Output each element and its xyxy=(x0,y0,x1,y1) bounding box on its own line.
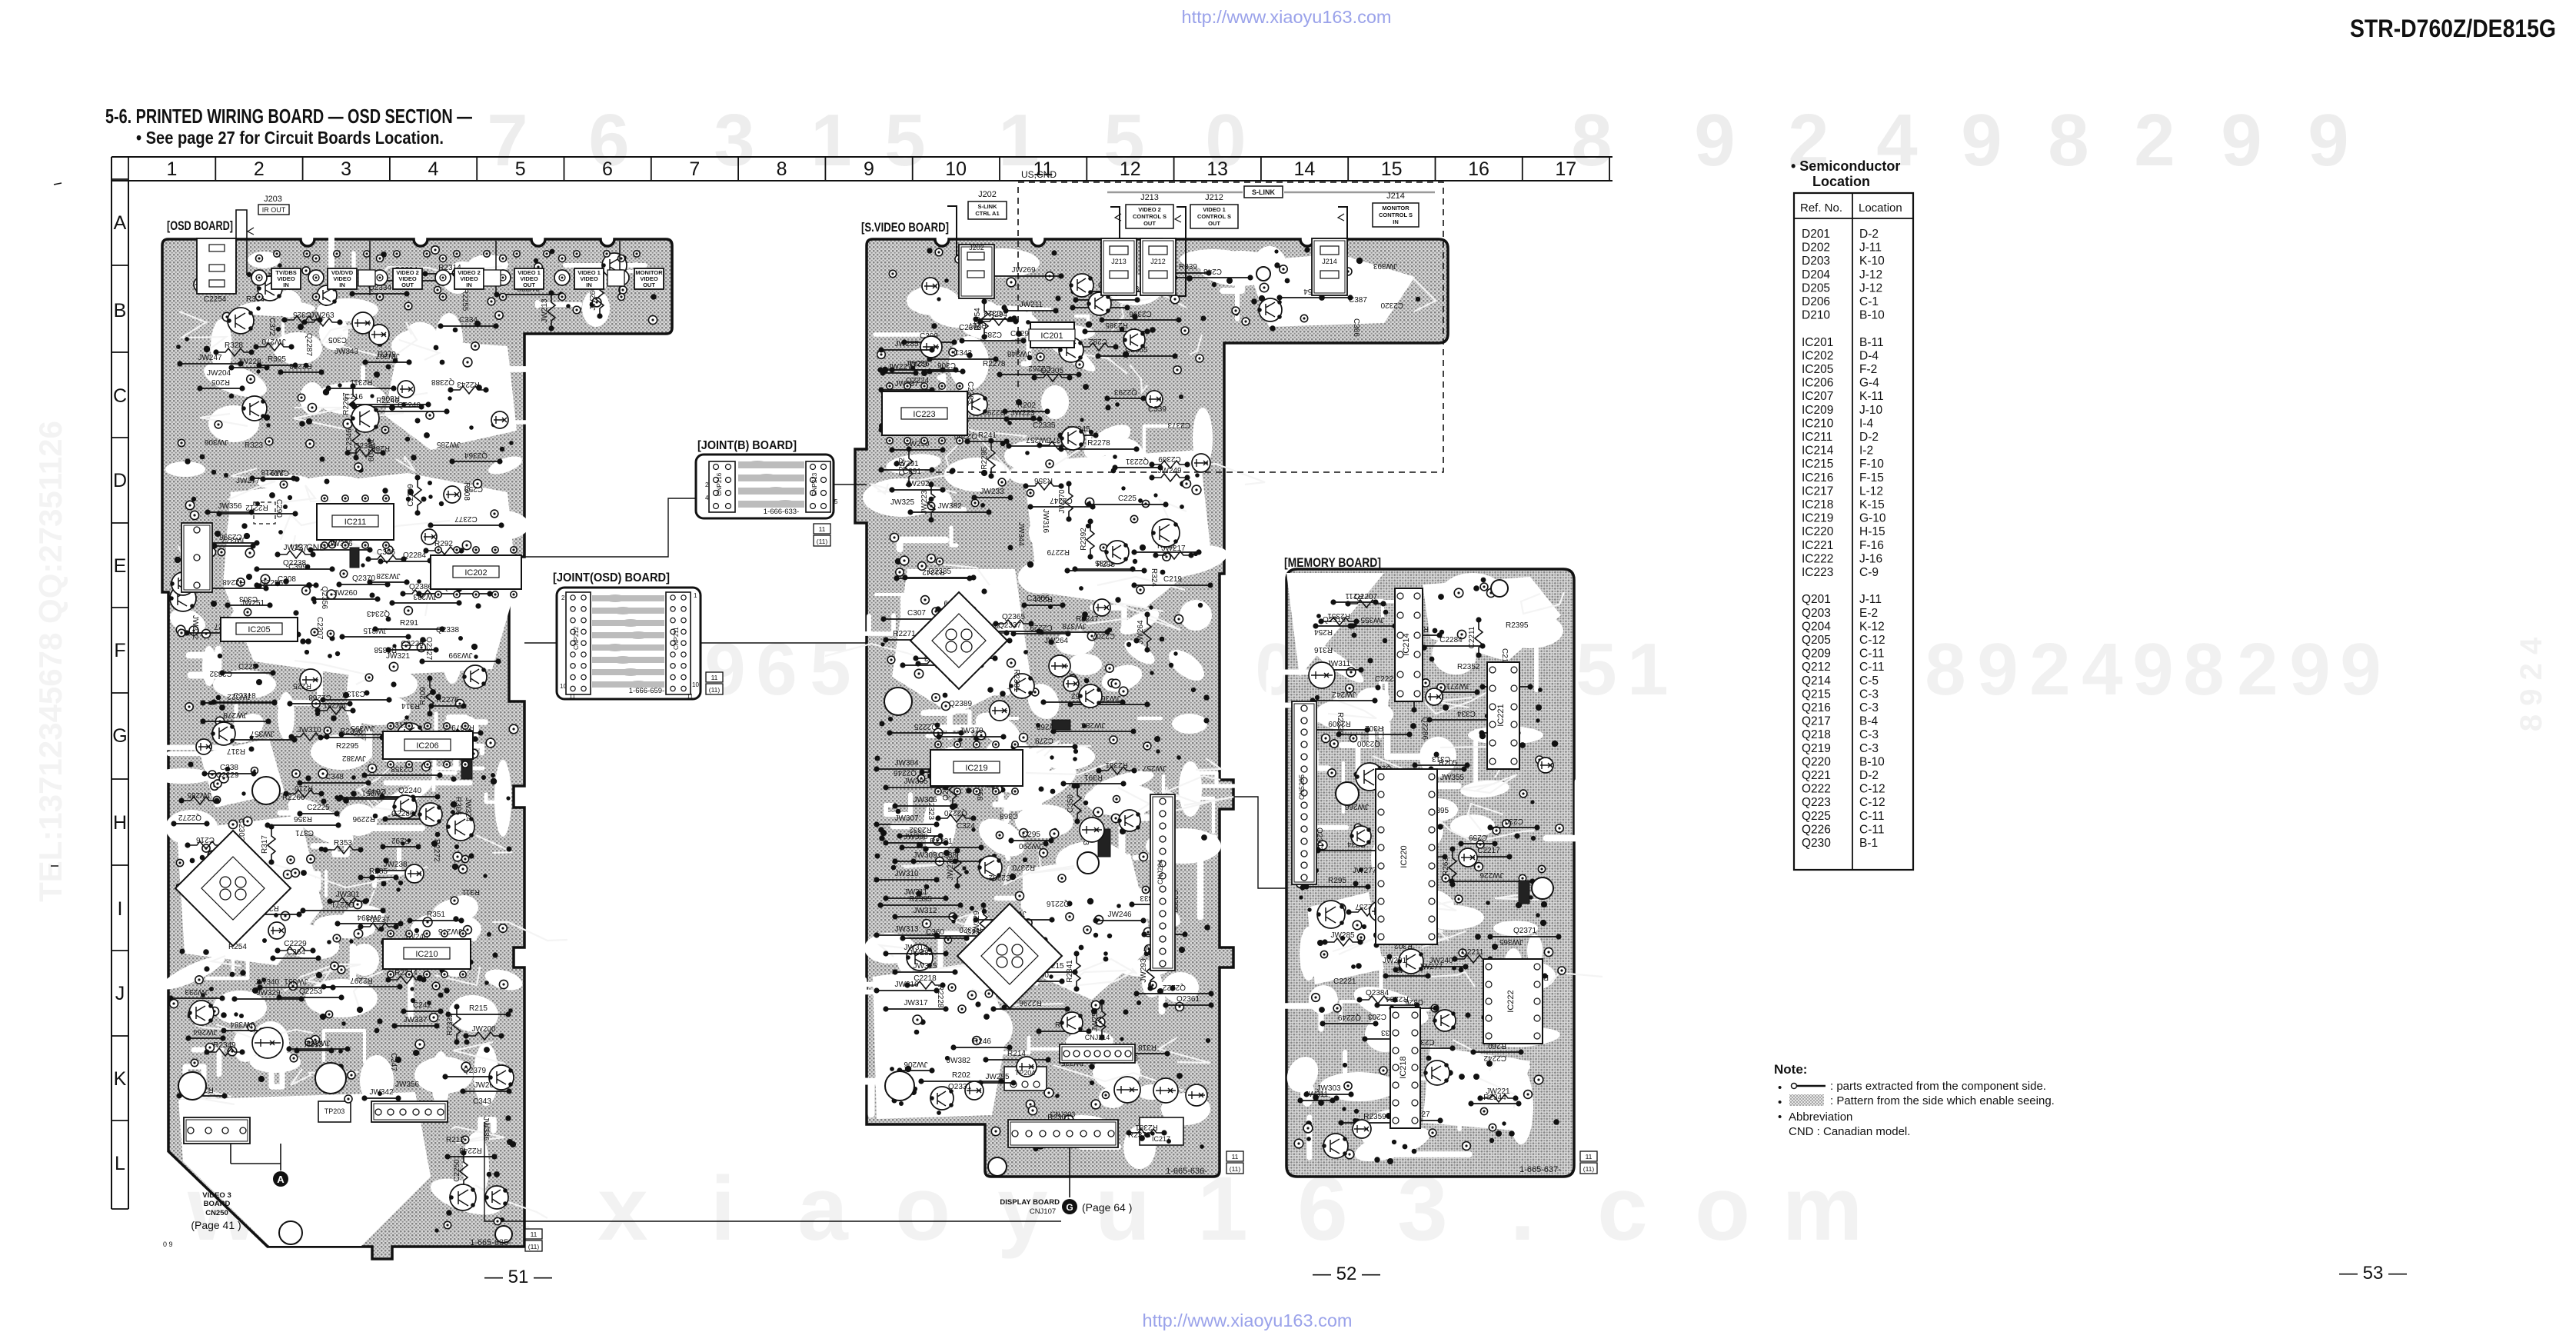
svg-text:R2342: R2342 xyxy=(922,568,945,576)
svg-text:I-4: I-4 xyxy=(1859,417,1873,430)
svg-text:JW311: JW311 xyxy=(1305,1091,1329,1099)
svg-text:8 9 2 4: 8 9 2 4 xyxy=(2514,637,2548,731)
svg-text:DISPLAY BOARD: DISPLAY BOARD xyxy=(1000,1198,1060,1207)
svg-text:C343: C343 xyxy=(954,349,972,358)
svg-text:IC220: IC220 xyxy=(1399,845,1409,867)
svg-text:JW355: JW355 xyxy=(1360,615,1385,624)
svg-text:9: 9 xyxy=(2221,99,2261,181)
svg-text:C2254: C2254 xyxy=(204,295,227,304)
svg-text:R2328: R2328 xyxy=(1336,712,1344,735)
svg-text:IC217: IC217 xyxy=(1802,485,1833,498)
svg-text:C-12: C-12 xyxy=(1859,796,1885,809)
svg-text:9: 9 xyxy=(1961,99,2002,181)
svg-text:Note:: Note: xyxy=(1774,1062,1807,1077)
svg-text:OUT: OUT xyxy=(1208,220,1220,227)
svg-text:JW356: JW356 xyxy=(395,1081,420,1089)
svg-text:J-12: J-12 xyxy=(1859,268,1882,281)
svg-text:1: 1 xyxy=(810,99,851,181)
svg-text:R356: R356 xyxy=(1034,476,1053,485)
svg-text:Q2272: Q2272 xyxy=(178,813,201,821)
svg-text:F-2: F-2 xyxy=(1859,363,1877,376)
svg-text:C-11: C-11 xyxy=(1859,810,1884,823)
svg-text:Q216: Q216 xyxy=(1802,701,1831,714)
svg-text:Q2249: Q2249 xyxy=(1338,1013,1361,1021)
svg-text:Q209: Q209 xyxy=(1802,648,1831,661)
svg-text:G: G xyxy=(1066,1202,1073,1213)
svg-text:IC211: IC211 xyxy=(1802,431,1832,444)
svg-text:C279: C279 xyxy=(1035,736,1053,744)
svg-text:J213: J213 xyxy=(1140,193,1159,202)
svg-text:IC223: IC223 xyxy=(1802,566,1833,579)
svg-text:Q2300: Q2300 xyxy=(1357,739,1380,748)
svg-text:JW226: JW226 xyxy=(1479,871,1504,879)
svg-text:R395: R395 xyxy=(268,355,286,364)
svg-text:MONITOR: MONITOR xyxy=(1382,205,1409,211)
svg-text:JW306: JW306 xyxy=(306,1038,331,1047)
svg-text:I-2: I-2 xyxy=(1859,445,1873,458)
svg-text:R2395: R2395 xyxy=(1506,621,1529,630)
svg-text:IC214: IC214 xyxy=(1802,445,1834,458)
svg-text:JW209: JW209 xyxy=(366,438,374,462)
svg-text:— 52 —: — 52 — xyxy=(1313,1264,1380,1284)
svg-text:R339: R339 xyxy=(1179,263,1197,271)
svg-text:C2346: C2346 xyxy=(345,428,354,451)
svg-text:R353: R353 xyxy=(334,839,352,847)
svg-text:C216: C216 xyxy=(196,835,215,844)
svg-text:2: 2 xyxy=(2029,628,2070,711)
svg-text:R2295: R2295 xyxy=(980,447,989,470)
svg-text:C2306: C2306 xyxy=(1027,594,1050,603)
svg-text:R311: R311 xyxy=(461,887,480,896)
svg-text:Q2388: Q2388 xyxy=(431,378,454,386)
svg-text:C225: C225 xyxy=(1118,495,1137,503)
svg-text:R324: R324 xyxy=(1150,568,1158,587)
svg-text:IC221: IC221 xyxy=(1802,539,1833,552)
svg-text:C372: C372 xyxy=(268,318,276,336)
svg-text:JW257: JW257 xyxy=(1142,764,1167,772)
svg-text:Q2343: Q2343 xyxy=(367,609,390,618)
svg-text:JW301: JW301 xyxy=(335,891,360,899)
svg-text:JW285: JW285 xyxy=(436,440,461,448)
svg-text:JW305: JW305 xyxy=(904,778,928,786)
svg-text:[JOINT(OSD) BOARD]: [JOINT(OSD) BOARD] xyxy=(553,571,670,584)
svg-text:JW304: JW304 xyxy=(894,759,919,768)
svg-text:11: 11 xyxy=(531,1230,537,1238)
svg-text:JW281: JW281 xyxy=(323,701,348,709)
svg-text:9: 9 xyxy=(1977,628,2018,711)
svg-text:R205: R205 xyxy=(1439,759,1457,768)
svg-text:16: 16 xyxy=(1468,158,1489,180)
svg-text:JW270: JW270 xyxy=(261,337,286,345)
svg-text:JW311: JW311 xyxy=(904,888,928,897)
svg-text:R308: R308 xyxy=(462,482,471,501)
svg-text:CONTROL S: CONTROL S xyxy=(1197,213,1231,220)
svg-text:C259: C259 xyxy=(1469,833,1487,841)
svg-text:JW306: JW306 xyxy=(913,796,937,804)
svg-text:JW285: JW285 xyxy=(187,791,211,799)
svg-text:B: B xyxy=(114,300,127,321)
svg-text:J214: J214 xyxy=(1322,258,1337,265)
svg-text:C399: C399 xyxy=(288,563,307,571)
svg-text:R2396: R2396 xyxy=(340,728,363,736)
svg-text:R318: R318 xyxy=(1138,1043,1157,1051)
svg-text:JW206: JW206 xyxy=(904,1060,928,1068)
svg-text:K-15: K-15 xyxy=(1859,498,1885,511)
svg-text:J213: J213 xyxy=(1111,258,1127,265)
svg-text:9: 9 xyxy=(704,628,745,711)
svg-text:CN5205: CN5205 xyxy=(1298,774,1306,800)
svg-text:Q2305: Q2305 xyxy=(1040,367,1063,375)
svg-text:R241: R241 xyxy=(978,431,997,440)
svg-text:Q2216: Q2216 xyxy=(1047,899,1070,907)
svg-text:C248: C248 xyxy=(1203,267,1222,275)
svg-text:R317: R317 xyxy=(227,747,245,755)
svg-text:• See page 27 for Circuit Boar: • See page 27 for Circuit Boards Locatio… xyxy=(136,128,444,148)
svg-text:(Page 41 ): (Page 41 ) xyxy=(191,1219,241,1231)
svg-text:IC201: IC201 xyxy=(1040,331,1063,341)
svg-text:IC211: IC211 xyxy=(344,518,367,527)
svg-text:Q2220: Q2220 xyxy=(944,808,967,817)
svg-text:i: i xyxy=(711,1158,736,1260)
svg-text:R2266: R2266 xyxy=(282,794,305,802)
svg-text:JW233: JW233 xyxy=(185,987,209,996)
svg-text:JW312: JW312 xyxy=(913,907,937,915)
svg-text:Q205: Q205 xyxy=(1802,634,1831,647)
svg-text:C2284: C2284 xyxy=(1439,636,1463,644)
svg-text:TP203: TP203 xyxy=(324,1107,345,1115)
svg-text:Q2225: Q2225 xyxy=(914,722,937,731)
svg-text:JW200: JW200 xyxy=(471,1025,496,1034)
svg-text:Q2364: Q2364 xyxy=(464,451,488,459)
svg-text:(11): (11) xyxy=(709,686,721,694)
svg-text:4: 4 xyxy=(705,495,709,501)
svg-text:Q2284: Q2284 xyxy=(403,551,426,560)
svg-text:F-16: F-16 xyxy=(1859,539,1884,552)
svg-text:C387: C387 xyxy=(1349,296,1367,305)
svg-text:C279: C279 xyxy=(271,468,289,477)
svg-text:R2276: R2276 xyxy=(436,696,459,704)
svg-text:JW277: JW277 xyxy=(1419,963,1443,971)
svg-text:— 53 —: — 53 — xyxy=(2339,1263,2407,1284)
svg-text:C290: C290 xyxy=(275,499,283,518)
svg-text:C307: C307 xyxy=(907,609,926,618)
svg-text:13: 13 xyxy=(1206,158,1228,180)
svg-text:D201: D201 xyxy=(1802,228,1830,241)
svg-text:R2278: R2278 xyxy=(1087,439,1110,448)
svg-text:C-3: C-3 xyxy=(1859,728,1879,741)
svg-text:CN250: CN250 xyxy=(205,1209,228,1217)
svg-text:JW264: JW264 xyxy=(193,1027,218,1036)
svg-text:J202: J202 xyxy=(978,190,997,199)
svg-text:G-10: G-10 xyxy=(1859,512,1886,525)
svg-text:JW242: JW242 xyxy=(1332,690,1356,698)
svg-text:C2396: C2396 xyxy=(1129,309,1152,318)
svg-text:•: • xyxy=(1778,1111,1782,1124)
svg-text:4: 4 xyxy=(428,158,438,180)
svg-text:IC202: IC202 xyxy=(464,568,487,578)
svg-text:C349: C349 xyxy=(368,787,386,795)
svg-text:A: A xyxy=(114,212,127,234)
svg-text:IC202: IC202 xyxy=(1802,349,1833,362)
svg-text:8: 8 xyxy=(777,158,787,180)
svg-text:: Pattern from the side which: : Pattern from the side which enable see… xyxy=(1830,1094,2055,1107)
svg-text:JW386: JW386 xyxy=(481,1117,490,1141)
svg-text:Q203: Q203 xyxy=(1802,607,1831,620)
svg-text:J212: J212 xyxy=(1150,258,1166,265)
svg-text:8: 8 xyxy=(1571,99,1612,181)
svg-text:IC205: IC205 xyxy=(248,625,270,634)
svg-text:2: 2 xyxy=(2134,99,2175,181)
svg-text:K-12: K-12 xyxy=(1859,620,1885,633)
svg-text:JW382: JW382 xyxy=(947,1057,971,1065)
svg-text:R2373: R2373 xyxy=(1128,1131,1151,1140)
svg-text:Location: Location xyxy=(1859,201,1902,215)
svg-text:JW315: JW315 xyxy=(913,962,937,971)
svg-text:D206: D206 xyxy=(1802,295,1830,308)
svg-text:J214: J214 xyxy=(1386,191,1405,201)
svg-text:C2373: C2373 xyxy=(1167,421,1190,429)
svg-text:JW271: JW271 xyxy=(1446,681,1470,690)
svg-text:CONTROL S: CONTROL S xyxy=(1133,213,1167,220)
svg-text:OUT: OUT xyxy=(1143,220,1156,227)
svg-text:C2369: C2369 xyxy=(1158,455,1181,463)
svg-text:11: 11 xyxy=(569,693,576,700)
svg-text:R2271: R2271 xyxy=(893,630,916,638)
svg-text:(11): (11) xyxy=(817,538,828,545)
svg-text:C230: C230 xyxy=(1505,817,1523,825)
svg-text:R2351: R2351 xyxy=(1327,611,1350,620)
svg-text:JW250: JW250 xyxy=(1091,1007,1100,1032)
svg-text:JW306: JW306 xyxy=(204,438,228,446)
svg-text:C247: C247 xyxy=(389,1053,398,1071)
svg-text:C2225: C2225 xyxy=(307,804,330,812)
svg-text:R2278: R2278 xyxy=(983,360,1006,368)
svg-text:JW370: JW370 xyxy=(959,727,983,735)
svg-text:TEL:13712345678 QQ:27351126: TEL:13712345678 QQ:27351126 xyxy=(32,421,68,902)
svg-text:JW322: JW322 xyxy=(227,692,251,701)
svg-text:Q221: Q221 xyxy=(1802,769,1831,782)
svg-text:R2247: R2247 xyxy=(1076,615,1099,624)
svg-text:a: a xyxy=(797,1158,849,1260)
svg-text:K: K xyxy=(114,1068,127,1090)
svg-text:R317: R317 xyxy=(261,835,269,854)
svg-text:JW382: JW382 xyxy=(341,754,366,762)
svg-text:C2211: C2211 xyxy=(1462,948,1484,957)
svg-text:R292: R292 xyxy=(391,836,410,844)
svg-text:Q230: Q230 xyxy=(1802,837,1831,850)
svg-text:11: 11 xyxy=(819,525,826,533)
svg-text:IC223: IC223 xyxy=(913,410,935,419)
svg-text:H: H xyxy=(113,812,127,834)
svg-text:JW324: JW324 xyxy=(464,798,472,822)
svg-text:R212: R212 xyxy=(446,1136,464,1144)
svg-text:Ref. No.: Ref. No. xyxy=(1800,201,1842,215)
svg-text:IC218: IC218 xyxy=(1399,1056,1408,1078)
svg-text:10: 10 xyxy=(945,158,967,180)
svg-text:IC219: IC219 xyxy=(965,764,987,773)
svg-text:C2211: C2211 xyxy=(1468,626,1476,648)
svg-text:E-2: E-2 xyxy=(1859,607,1878,620)
svg-text:Q2240: Q2240 xyxy=(398,401,421,410)
svg-text:R2297: R2297 xyxy=(350,976,373,984)
svg-text:JW264: JW264 xyxy=(1044,637,1069,645)
svg-text:Q2379: Q2379 xyxy=(463,1067,486,1075)
svg-text:11: 11 xyxy=(711,674,718,681)
svg-text:7: 7 xyxy=(689,158,700,180)
svg-text:JW382: JW382 xyxy=(937,502,962,511)
svg-text:JW223: JW223 xyxy=(1010,409,1035,418)
svg-text:STR-D760Z/DE815G: STR-D760Z/DE815G xyxy=(2350,15,2556,42)
svg-text:C368: C368 xyxy=(1000,811,1018,820)
svg-text:K-10: K-10 xyxy=(1859,255,1885,268)
svg-text:IC216: IC216 xyxy=(1802,471,1833,485)
svg-text:Q204: Q204 xyxy=(1802,620,1831,633)
svg-text:JW211: JW211 xyxy=(1020,301,1043,309)
svg-text:TP204: TP204 xyxy=(1015,1069,1036,1077)
svg-text:IN: IN xyxy=(339,281,345,288)
svg-text:D-4: D-4 xyxy=(1859,349,1879,362)
svg-text:C295: C295 xyxy=(1022,831,1040,839)
svg-text:C2335: C2335 xyxy=(1033,421,1056,430)
svg-text:R246: R246 xyxy=(973,1037,991,1046)
svg-text:C-12: C-12 xyxy=(1859,634,1885,647)
svg-text:R316: R316 xyxy=(1314,645,1333,654)
svg-text:C-3: C-3 xyxy=(1859,742,1879,755)
svg-text:OUT: OUT xyxy=(523,281,535,288)
svg-text:JW386: JW386 xyxy=(328,540,353,548)
svg-text:R2243: R2243 xyxy=(457,380,480,388)
svg-text:R2295: R2295 xyxy=(336,742,359,751)
svg-text:F-10: F-10 xyxy=(1859,458,1884,471)
svg-text:C2207: C2207 xyxy=(315,617,324,640)
svg-text:IR OUT: IR OUT xyxy=(262,206,286,214)
svg-text:2: 2 xyxy=(254,158,265,180)
svg-text:JW344: JW344 xyxy=(1017,522,1025,547)
svg-text:CONTROL S: CONTROL S xyxy=(1379,211,1413,218)
svg-text:D210: D210 xyxy=(1802,309,1830,322)
svg-text:IC210: IC210 xyxy=(415,950,438,959)
svg-text:R2255: R2255 xyxy=(461,288,469,311)
svg-text:JW365: JW365 xyxy=(1499,937,1523,946)
svg-text:JW213: JW213 xyxy=(541,298,549,323)
svg-text:IC205: IC205 xyxy=(1802,363,1833,376)
svg-text:Q219: Q219 xyxy=(1802,742,1831,755)
svg-text:C2221: C2221 xyxy=(1333,977,1356,986)
svg-text:R2381: R2381 xyxy=(1135,1123,1158,1131)
svg-text:R210: R210 xyxy=(295,784,313,792)
svg-text:CNJ107: CNJ107 xyxy=(1030,1207,1056,1216)
svg-text:C2373: C2373 xyxy=(959,324,982,332)
svg-text:12: 12 xyxy=(1120,158,1141,180)
svg-text:R314: R314 xyxy=(401,701,420,710)
svg-text:1-666-633-: 1-666-633- xyxy=(764,508,799,516)
svg-text:IC220: IC220 xyxy=(1802,525,1834,538)
svg-text:JW348: JW348 xyxy=(1007,349,1031,358)
svg-text:1-665-636-: 1-665-636- xyxy=(1166,1167,1207,1176)
svg-text:US,CND: US,CND xyxy=(291,542,326,553)
svg-text:C305: C305 xyxy=(328,335,347,344)
svg-text:JW316: JW316 xyxy=(1041,509,1050,534)
svg-text:D203: D203 xyxy=(1802,255,1830,268)
svg-text:R2385: R2385 xyxy=(1105,321,1128,329)
svg-text:5: 5 xyxy=(884,99,925,181)
svg-text:•: • xyxy=(1778,1096,1782,1109)
svg-text:1-665-637-: 1-665-637- xyxy=(1519,1165,1561,1174)
svg-text:9: 9 xyxy=(2289,628,2330,711)
svg-text:CNP212: CNP212 xyxy=(573,626,580,650)
svg-text:: parts extracted from the com: : parts extracted from the component sid… xyxy=(1830,1080,2046,1093)
svg-text:J212: J212 xyxy=(1205,193,1223,202)
svg-text:R263: R263 xyxy=(1442,857,1450,876)
svg-text:1-665-635-: 1-665-635- xyxy=(470,1238,511,1247)
svg-text:JW307: JW307 xyxy=(894,814,919,823)
svg-text:D: D xyxy=(113,470,127,491)
svg-text:R202: R202 xyxy=(952,1071,970,1080)
svg-text:Q2384: Q2384 xyxy=(1366,989,1389,997)
svg-text:0 9: 0 9 xyxy=(163,1240,173,1248)
svg-text:OUT: OUT xyxy=(643,281,655,288)
svg-text:C2299: C2299 xyxy=(407,484,415,507)
svg-text:C-11: C-11 xyxy=(1859,648,1884,661)
svg-text:S-LINK: S-LINK xyxy=(1252,188,1275,196)
svg-text:JW247: JW247 xyxy=(198,354,222,362)
svg-text:R2381: R2381 xyxy=(1012,669,1020,692)
svg-text:1: 1 xyxy=(694,592,697,599)
svg-text:1: 1 xyxy=(167,158,178,180)
svg-text:R2370: R2370 xyxy=(1012,863,1035,871)
svg-text:•: • xyxy=(1778,1081,1782,1094)
svg-text:Q2361: Q2361 xyxy=(1177,995,1200,1004)
svg-text:C282: C282 xyxy=(1089,337,1107,345)
svg-text:C-1: C-1 xyxy=(1859,295,1879,308)
svg-text:8: 8 xyxy=(2183,628,2224,711)
svg-text:5: 5 xyxy=(810,628,850,711)
svg-text:6: 6 xyxy=(756,628,797,711)
svg-text:C325: C325 xyxy=(293,310,311,318)
svg-text:JW316: JW316 xyxy=(894,981,919,989)
svg-text:R2272: R2272 xyxy=(432,839,441,862)
svg-text:x: x xyxy=(597,1158,648,1260)
svg-text:JW291: JW291 xyxy=(894,460,919,468)
svg-text:R2392: R2392 xyxy=(1080,528,1088,551)
svg-text:C2332: C2332 xyxy=(209,669,232,678)
svg-text:Q2365: Q2365 xyxy=(1002,613,1025,621)
svg-text:S-LINK: S-LINK xyxy=(978,203,998,210)
svg-text:D205: D205 xyxy=(1802,281,1830,295)
svg-text:• Semiconductor: • Semiconductor xyxy=(1791,158,1900,174)
svg-text:JW269: JW269 xyxy=(1011,266,1036,275)
svg-text:10: 10 xyxy=(560,683,567,690)
svg-text:9: 9 xyxy=(2132,628,2173,711)
svg-text:4: 4 xyxy=(2082,628,2122,711)
svg-text:JW351: JW351 xyxy=(284,977,308,985)
svg-text:J-16: J-16 xyxy=(1859,552,1882,565)
svg-text:C2242: C2242 xyxy=(1483,1054,1506,1062)
svg-text:R2332: R2332 xyxy=(446,1013,454,1036)
svg-text:JW264: JW264 xyxy=(1137,620,1145,644)
svg-text:JW337: JW337 xyxy=(403,1016,428,1024)
svg-text:JW295: JW295 xyxy=(985,1073,1010,1081)
svg-text:JW263: JW263 xyxy=(310,311,334,320)
svg-text:R2248: R2248 xyxy=(222,578,245,586)
svg-text:IC219: IC219 xyxy=(1802,512,1833,525)
svg-text:JW293: JW293 xyxy=(1140,958,1148,983)
svg-text:http://www.xiaoyu163.com: http://www.xiaoyu163.com xyxy=(1182,7,1392,27)
svg-text:o: o xyxy=(895,1158,950,1260)
svg-text:C364: C364 xyxy=(287,948,305,957)
svg-text:JW314: JW314 xyxy=(904,944,928,952)
svg-text:JW212: JW212 xyxy=(191,615,199,640)
